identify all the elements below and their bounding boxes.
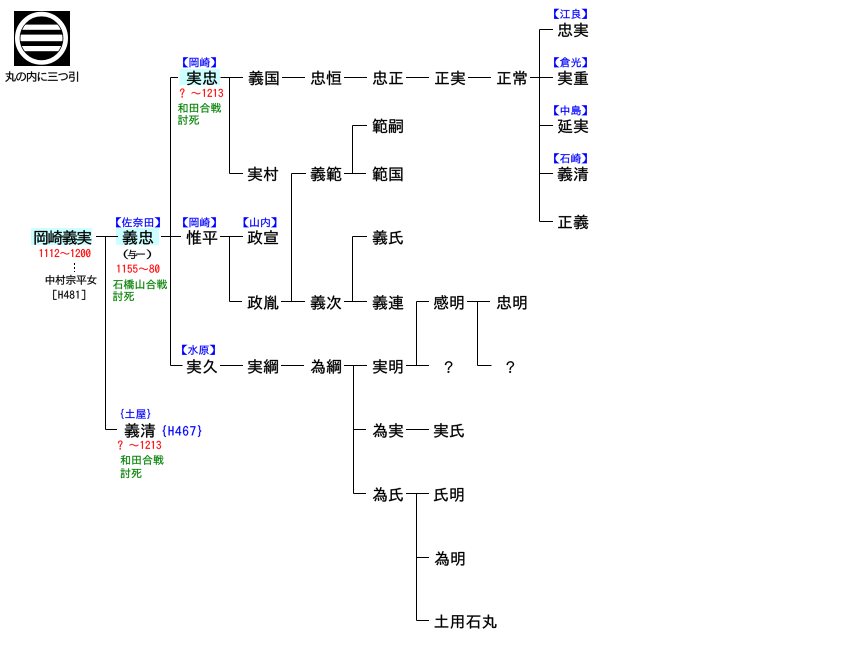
wire to 正義 — [540, 221, 554, 223]
wire to 政胤 — [230, 301, 243, 303]
wire 惟平-政宣 — [220, 236, 243, 238]
person 土用石丸 — [435, 615, 497, 629]
family label 【岡崎】(惟平) — [183, 217, 216, 227]
note （与一） paren-close — [147, 250, 152, 259]
person 正実 — [435, 71, 465, 85]
wire V7 yoshitsugu children — [352, 237, 354, 302]
person 忠実 — [558, 23, 588, 37]
person 範国 — [373, 167, 403, 182]
person 為綱 — [311, 359, 341, 373]
wire to 義範 — [292, 173, 307, 175]
wire 感明-忠明 — [467, 301, 490, 303]
wire V9 kanmei children — [477, 302, 479, 366]
wire 義国-忠恒 — [282, 77, 305, 79]
wire V4 yoshinori-yoshitsugu — [291, 174, 293, 302]
person 義忠 — [123, 230, 153, 245]
wire V12 tsunetsune children spine — [539, 30, 541, 222]
person 惟平 — [187, 230, 218, 244]
person 正常 — [497, 71, 526, 85]
wire to 義氏 — [353, 236, 368, 238]
note [H481] — [53, 290, 85, 300]
wire to ?2 — [478, 365, 492, 367]
person 為氏 — [373, 487, 403, 501]
dashed link 岡崎義実-中村宗平女 — [74, 263, 76, 272]
wire 政胤-義次 — [281, 301, 305, 303]
note 和田合戦 (義清) — [121, 455, 164, 465]
highlight 実忠 — [180, 69, 221, 85]
family label 【山内】 — [244, 217, 277, 227]
family label 【倉光】 — [554, 57, 587, 67]
person 義次 — [311, 295, 341, 310]
note 討死 (義清) — [121, 468, 142, 478]
person 岡崎義実 — [35, 230, 92, 245]
wire to 為氏 — [354, 493, 367, 495]
person 義連 — [373, 295, 404, 310]
wire 実綱-為綱 — [281, 365, 304, 367]
person 氏明 — [434, 488, 463, 502]
dates ?~1213 (実忠) — [180, 88, 223, 97]
wire 為綱-実明 — [344, 365, 367, 367]
crest caption 丸の内に三つ引 — [5, 71, 78, 81]
wire to 延実 — [540, 125, 554, 127]
person 延実 — [558, 119, 588, 134]
person 実明 — [373, 359, 402, 373]
dates 1112~1200 — [40, 249, 91, 257]
wire 義範-範国 — [344, 173, 366, 175]
wire 義忠-惟平 — [161, 236, 181, 238]
wire to 感明 — [417, 301, 430, 303]
person 忠正 — [373, 71, 403, 85]
person 正義 — [558, 215, 588, 230]
person 義清(石崎) — [558, 167, 588, 182]
wire V1 yoshizane-yoshikiyo — [105, 237, 107, 430]
person 政胤 — [248, 295, 279, 310]
wire to 範嗣 — [353, 125, 368, 127]
wire V5 korehira children — [229, 237, 231, 302]
wire 実久-実綱 — [220, 365, 243, 367]
highlight 岡崎義実 — [31, 228, 92, 245]
wire V11 tameuji children — [416, 494, 418, 621]
person 為明 — [435, 551, 464, 566]
person 為実 — [373, 423, 403, 437]
person ?(感明子) — [507, 361, 514, 372]
family label 【佐奈田】 — [116, 217, 160, 227]
person 実重 — [558, 71, 588, 85]
wire 忠恒-忠正 — [344, 77, 367, 79]
family crest 丸の内に三つ引 — [14, 11, 70, 66]
person 義国 — [249, 71, 279, 86]
wire to 義清(石崎) — [540, 173, 554, 175]
note 討死 (実忠) — [178, 115, 199, 125]
note （与一） paren-open — [124, 250, 129, 259]
person 実村 — [248, 167, 278, 181]
note 中村宗平女 — [46, 275, 97, 285]
highlight 義忠 — [116, 228, 159, 245]
person 忠明 — [497, 295, 526, 309]
wire V2 sanetada-sanehisa — [170, 78, 172, 366]
dates ?~1213 (義清) — [118, 440, 161, 449]
wire to 義清(土屋) — [106, 429, 118, 431]
person 範嗣 — [373, 119, 403, 134]
person 実綱 — [248, 359, 278, 373]
wire V6 norinori children — [352, 126, 354, 174]
wire to 実久 — [171, 365, 183, 367]
wire to 実忠 — [171, 77, 179, 79]
family label 【石崎】 — [554, 153, 587, 163]
person 感明 — [434, 295, 463, 309]
wire 正常-実重 — [530, 77, 553, 79]
wire 為氏-氏明 — [406, 493, 429, 495]
wire V8 saneaki children — [416, 302, 418, 366]
wire V10 tametsuna children — [353, 366, 355, 494]
person ?(実明子) — [445, 361, 452, 372]
person 実忠 — [187, 71, 217, 85]
wire 正実-正常 — [468, 77, 491, 79]
note 和田合戦 (実忠) — [178, 103, 221, 113]
wire to 為明 — [417, 557, 430, 559]
dates 1155~80 — [117, 265, 159, 273]
wire V3 sanetada children — [229, 78, 231, 174]
wire 実忠-義国 — [221, 77, 244, 79]
person 実久 — [187, 359, 217, 373]
person 義清(土屋) — [125, 423, 155, 438]
note 石橋山合戦 — [113, 279, 167, 289]
wire to 土用石丸 — [417, 620, 430, 622]
note 討死 (義忠) — [113, 291, 134, 301]
person 実氏 — [434, 423, 464, 437]
note （与一） yo — [128, 250, 137, 259]
person 義範 — [311, 167, 341, 182]
family label 【水原】 — [182, 345, 215, 355]
wire 実明-? — [406, 365, 429, 367]
wire to 忠実 — [540, 29, 554, 31]
person 忠恒 — [311, 71, 341, 85]
family label {土屋} — [121, 409, 150, 419]
wire 為実-実氏 — [406, 429, 429, 431]
family label 【江良】 — [554, 9, 587, 19]
wire to 実村 — [230, 173, 244, 175]
wire 岡崎義実-義忠 — [96, 236, 118, 238]
note {H467} — [163, 425, 202, 437]
wire 忠正-正実 — [406, 77, 429, 79]
wire to 為実 — [354, 429, 367, 431]
person 義氏 — [373, 230, 403, 245]
family label 【岡崎】(実忠) — [183, 57, 216, 67]
person 政宣 — [248, 230, 278, 245]
note （与一） ichi — [136, 253, 145, 256]
family label 【中島】 — [554, 105, 587, 115]
wire 義次-義連 — [344, 301, 367, 303]
